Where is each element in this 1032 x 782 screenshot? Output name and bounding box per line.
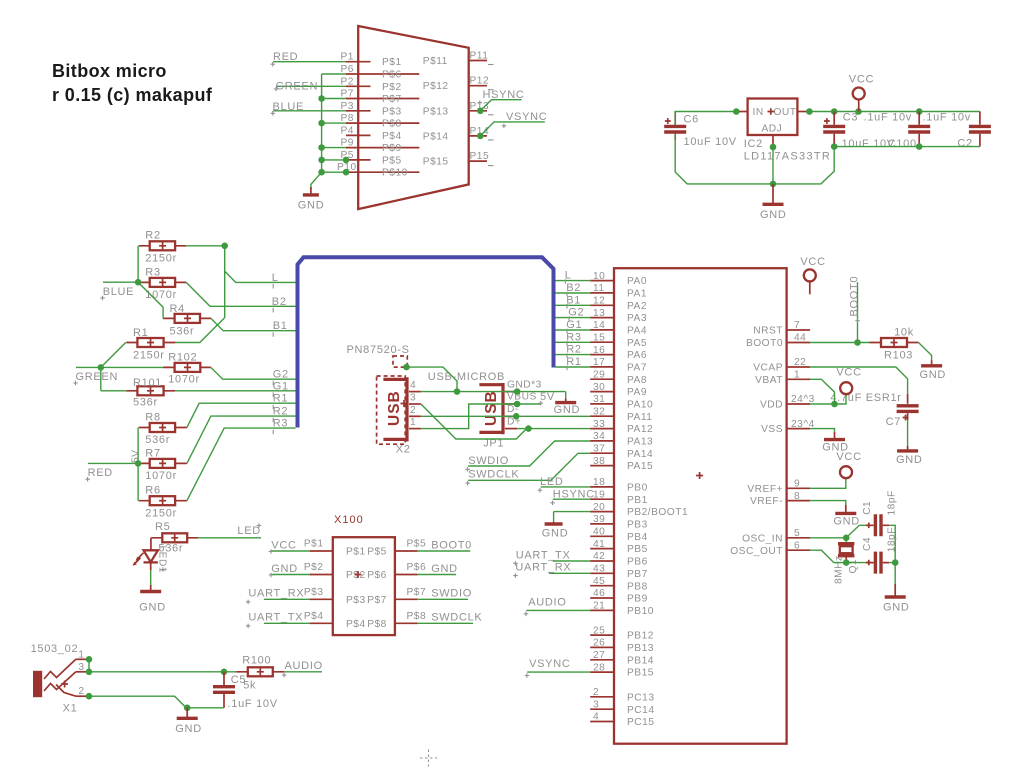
VGA pin P15 <box>423 151 494 168</box>
wire VSS to ground <box>810 429 834 432</box>
U1 pin 20 PB2/BOOT1 <box>590 502 688 518</box>
U1 pin 46 PB9 <box>590 588 648 604</box>
svg-text:P$6: P$6 <box>407 562 427 573</box>
svg-text:31: 31 <box>593 394 605 405</box>
ground GND below VGA <box>298 187 325 212</box>
svg-text:1070r: 1070r <box>145 470 177 482</box>
U1 pin 18 PB0 <box>590 477 648 493</box>
U1 pin 40 PB4 <box>590 527 648 543</box>
svg-text:20: 20 <box>593 502 605 513</box>
wire D- to PA11 <box>421 413 590 420</box>
svg-text:P$2: P$2 <box>382 82 402 93</box>
svg-text:GND*3: GND*3 <box>507 379 542 390</box>
X100 pin P$2 <box>304 562 333 575</box>
svg-text:AUDIO: AUDIO <box>528 597 566 609</box>
svg-text:PC15: PC15 <box>627 717 654 728</box>
svg-text:PC14: PC14 <box>627 705 654 716</box>
svg-text:PA11: PA11 <box>627 412 652 423</box>
svg-text:PB12: PB12 <box>627 631 654 642</box>
svg-text:PB1: PB1 <box>627 495 648 506</box>
svg-text:R3: R3 <box>145 267 160 279</box>
svg-text:C7: C7 <box>886 416 901 428</box>
VGA pin P9 <box>341 138 420 155</box>
svg-text:SWDIO: SWDIO <box>431 588 472 600</box>
svg-text:44: 44 <box>794 333 806 344</box>
svg-text:VCAP: VCAP <box>753 363 783 374</box>
node B2 label left <box>272 296 287 313</box>
svg-text:R1: R1 <box>566 356 581 368</box>
svg-text:Bitbox micro: Bitbox micro <box>52 61 167 81</box>
U1 pin 11 PA1 <box>590 283 647 299</box>
ground GND at C7 <box>896 446 923 466</box>
svg-text:21: 21 <box>593 601 605 612</box>
svg-text:BLUE: BLUE <box>273 101 305 113</box>
svg-text:4.7uF ESR1r: 4.7uF ESR1r <box>830 392 901 404</box>
svg-text:R6: R6 <box>145 485 160 497</box>
svg-text:R3: R3 <box>566 331 581 343</box>
svg-text:OSC_IN: OSC_IN <box>742 533 783 544</box>
node R1 label left <box>273 393 288 410</box>
svg-text:25: 25 <box>593 625 605 636</box>
svg-text:L: L <box>272 272 279 284</box>
wire R8 output to node R1 <box>187 403 296 427</box>
svg-text:G2: G2 <box>273 369 289 381</box>
svg-text:P$9: P$9 <box>382 143 402 154</box>
svg-text:536r: 536r <box>170 326 195 338</box>
svg-text:3: 3 <box>410 393 416 404</box>
node BOOT0 vertical label <box>848 276 860 343</box>
node B2 at PA1 <box>566 282 581 296</box>
svg-text:R4: R4 <box>170 303 185 315</box>
U1 pin 39 PB3 <box>590 514 648 530</box>
svg-text:15: 15 <box>593 332 605 343</box>
node BLUE into resistors <box>100 282 138 300</box>
svg-text:G1: G1 <box>566 319 582 331</box>
sheet origin cross <box>420 750 437 767</box>
IC2 pin OUT <box>797 111 809 113</box>
U1 pin 12 PA2 <box>590 296 647 312</box>
svg-text:18pF: 18pF <box>886 490 897 515</box>
svg-text:46: 46 <box>593 588 605 599</box>
svg-text:GND: GND <box>554 404 581 416</box>
svg-text:P$4: P$4 <box>382 131 402 142</box>
svg-text:OUT: OUT <box>774 107 797 118</box>
svg-text:GND: GND <box>833 515 860 527</box>
VGA pin P3 <box>341 101 402 118</box>
wire C7 to ground <box>907 420 909 446</box>
X2 pin 3 <box>409 393 421 405</box>
U1 right pin 5 OSC_IN <box>742 528 810 544</box>
capacitor C2 <box>957 112 991 150</box>
ground GND at R103 <box>920 360 947 381</box>
U1 pin 13 PA3 <box>590 308 647 324</box>
U1 pin 45 PB8 <box>590 576 648 592</box>
wire C4 to ground vertical <box>889 556 898 584</box>
U1 pin 19 PB1 <box>590 489 648 505</box>
svg-text:PA8: PA8 <box>627 375 647 386</box>
wire R2 output to node L <box>175 243 295 343</box>
svg-text:14: 14 <box>593 320 605 331</box>
wire C1 right to vertical <box>889 525 895 556</box>
node HSYNC from P13 <box>477 89 525 114</box>
node HSYNC at PB1 <box>550 489 595 506</box>
svg-text:17: 17 <box>593 357 605 368</box>
svg-text:33: 33 <box>593 419 605 430</box>
svg-text:42: 42 <box>593 551 605 562</box>
svg-text:PA15: PA15 <box>627 461 653 472</box>
node RED wire to P1 <box>271 51 347 67</box>
U1 pin 34 PA13 <box>590 431 653 447</box>
power VCC above U1 <box>800 256 825 294</box>
U1 right pin 24^3 VDD <box>760 394 815 410</box>
U1 pin 31 PA10 <box>590 394 653 410</box>
power VCC at VREF+ <box>836 451 861 478</box>
X2 pin 2 <box>409 405 421 417</box>
svg-text:.1uF 10v: .1uF 10v <box>923 112 971 124</box>
IC2 pin IN <box>736 111 747 113</box>
X1 pin 3 <box>76 662 89 673</box>
svg-text:VCC: VCC <box>849 74 874 86</box>
X100 pin P$4 <box>304 611 333 624</box>
svg-text:39: 39 <box>593 514 605 525</box>
VGA pin P1 <box>341 52 402 68</box>
IC2 pin ADJ <box>772 135 774 147</box>
svg-text:P$14: P$14 <box>423 131 449 142</box>
svg-text:GND: GND <box>920 369 947 381</box>
svg-text:PA5: PA5 <box>627 338 647 349</box>
capacitor C1 18pF <box>862 490 898 536</box>
node L label left <box>272 272 279 289</box>
svg-text:UART_RX: UART_RX <box>248 588 304 600</box>
U1 right pin 6 OSC_OUT <box>730 540 810 556</box>
svg-text:PB5: PB5 <box>627 544 648 555</box>
svg-text:P$2: P$2 <box>346 570 366 581</box>
U1 pin 28 PB15 <box>590 662 654 678</box>
ground GND below LED <box>139 592 166 614</box>
capacitor C3 <box>823 112 912 151</box>
audio jack X1 1503_02 <box>31 643 79 715</box>
resistor R6 2150r <box>139 485 187 520</box>
svg-text:PB6: PB6 <box>627 557 648 568</box>
svg-text:USB-MICROB: USB-MICROB <box>428 371 505 383</box>
svg-text:PA6: PA6 <box>627 350 647 361</box>
svg-text:18pF: 18pF <box>886 527 897 552</box>
wire R3 output to node B2 <box>186 282 295 306</box>
U1 pin 33 PA12 <box>590 419 653 435</box>
svg-text:B2: B2 <box>272 296 287 308</box>
U1 pin 32 PA11 <box>590 406 652 422</box>
svg-text:C1: C1 <box>862 501 873 515</box>
microcontroller U1 STM32 body <box>614 268 787 744</box>
svg-text:P$1: P$1 <box>382 57 402 68</box>
node G2 at PA3 <box>568 307 584 321</box>
svg-text:R5: R5 <box>155 521 170 533</box>
U1 pin 29 PA8 <box>590 369 647 385</box>
svg-text:AUDIO: AUDIO <box>285 660 323 672</box>
svg-text:R2: R2 <box>566 344 581 356</box>
X100 pin P$1 <box>304 539 333 552</box>
svg-text:32: 32 <box>593 406 605 417</box>
capacitor C4 18pF <box>862 527 898 574</box>
wire USB shield to GND net <box>403 364 457 392</box>
svg-text:GND: GND <box>298 200 325 212</box>
svg-text:VSYNC: VSYNC <box>506 111 547 123</box>
resistor R4 536r <box>163 303 211 337</box>
svg-text:19: 19 <box>593 489 605 500</box>
resistor R1 2150r <box>126 327 175 362</box>
node G1 label left <box>273 380 289 397</box>
node SWDIO at X100 P$7 <box>418 588 472 600</box>
svg-text:HSYNC: HSYNC <box>553 489 595 501</box>
node BLUE wire to P3 <box>271 101 347 116</box>
wire OSC_IN node <box>810 535 849 542</box>
svg-text:PA2: PA2 <box>627 301 647 312</box>
node LED label at R5 <box>198 523 261 538</box>
wire D+ to PA12 <box>517 425 590 432</box>
svg-text:PA7: PA7 <box>627 363 647 374</box>
node SWDCLK wire to PA14 <box>465 453 590 485</box>
U1 pin 17 PA7 <box>590 357 647 373</box>
resistor R3 1070r <box>139 267 187 301</box>
svg-text:2: 2 <box>78 686 84 697</box>
power VCC at VDD <box>836 366 861 394</box>
svg-text:PB13: PB13 <box>627 643 654 654</box>
X2 pin 4 <box>409 380 421 392</box>
U1 pin 41 PB5 <box>590 539 648 555</box>
svg-text:R2: R2 <box>273 406 288 418</box>
node R2 at PA6 <box>566 344 581 358</box>
svg-text:C2: C2 <box>957 138 972 150</box>
U1 pin 4 PC15 <box>590 712 654 728</box>
svg-text:G1: G1 <box>273 380 289 392</box>
svg-text:B2: B2 <box>566 282 581 294</box>
svg-text:RED: RED <box>88 467 113 479</box>
svg-text:BOOT0: BOOT0 <box>431 539 472 551</box>
wire R6 output to node R3 <box>187 428 296 501</box>
svg-text:r 0.15 (c) makapuf: r 0.15 (c) makapuf <box>52 85 213 105</box>
svg-text:1: 1 <box>78 649 84 660</box>
VGA pin P11 <box>423 51 494 68</box>
svg-text:GREEN: GREEN <box>276 80 319 92</box>
svg-text:3: 3 <box>78 662 84 673</box>
svg-text:1070r: 1070r <box>168 374 200 386</box>
svg-text:P$13: P$13 <box>423 106 449 117</box>
node R3 at PA5 <box>566 331 581 345</box>
svg-text:R103: R103 <box>884 349 913 361</box>
U1 pin 14 PA4 <box>590 320 647 336</box>
X100 pin P$3 <box>304 587 333 600</box>
node VSYNC at PB15 <box>525 658 591 678</box>
svg-text:18: 18 <box>593 477 605 488</box>
resistor R100 5k <box>236 655 284 692</box>
U1 pin 15 PA5 <box>590 332 647 348</box>
svg-text:Q1: Q1 <box>848 559 859 574</box>
svg-text:ADJ: ADJ <box>762 124 783 135</box>
node SWDIO wire to PA13 <box>465 441 590 472</box>
svg-text:P$1: P$1 <box>304 539 324 550</box>
svg-text:C100: C100 <box>888 138 917 150</box>
X100 pin P$7 <box>395 587 426 600</box>
svg-text:27: 27 <box>593 650 605 661</box>
svg-text:P$6: P$6 <box>367 570 387 581</box>
svg-text:X1: X1 <box>63 703 78 715</box>
svg-text:P$7: P$7 <box>407 587 427 598</box>
svg-text:P4: P4 <box>341 125 354 136</box>
svg-text:UART_TX: UART_TX <box>516 549 571 561</box>
VGA pin P10 <box>337 162 419 179</box>
svg-text:29: 29 <box>593 369 605 380</box>
svg-text:P$7: P$7 <box>367 595 387 606</box>
svg-text:8: 8 <box>794 491 800 502</box>
svg-text:R102: R102 <box>168 351 197 363</box>
svg-text:VDD: VDD <box>760 400 783 411</box>
svg-text:VSS: VSS <box>761 424 783 435</box>
VGA pin P13 <box>423 101 494 118</box>
svg-text:R8: R8 <box>145 412 160 424</box>
wire R103 to ground <box>919 343 932 361</box>
sheet title text <box>52 61 213 105</box>
svg-text:1: 1 <box>410 417 416 428</box>
wire VGA ground chain <box>311 74 346 189</box>
VGA pin P7 <box>341 89 420 106</box>
svg-text:30: 30 <box>593 382 605 393</box>
node BOOT0 at X100 <box>418 539 472 551</box>
svg-text:P$8: P$8 <box>367 619 387 630</box>
svg-text:PN87520-S: PN87520-S <box>347 344 410 356</box>
wire BLUE to R2 R3 R4 <box>135 246 163 319</box>
wire VREF- to ground <box>810 501 846 505</box>
svg-text:UART_TX: UART_TX <box>248 612 303 624</box>
U1 pin 30 PA9 <box>590 382 647 398</box>
VGA pin P14 <box>423 126 494 143</box>
U1 right pin 44 BOOT0 <box>746 333 810 349</box>
svg-text:GREEN: GREEN <box>76 371 119 383</box>
svg-text:B1: B1 <box>566 294 581 306</box>
svg-text:41: 41 <box>593 539 605 550</box>
node UART_TX at PB6 <box>513 549 590 565</box>
svg-text:PA10: PA10 <box>627 400 653 411</box>
svg-text:SWDCLK: SWDCLK <box>431 612 482 624</box>
X1 pin 1 <box>76 649 89 660</box>
U1 pin 43 PB7 <box>590 564 648 580</box>
node B1 at PA2 <box>566 294 581 308</box>
svg-text:PA3: PA3 <box>627 313 647 324</box>
node RED into resistors <box>85 450 141 482</box>
VGA pin P5 <box>341 150 402 167</box>
resistor R7 1070r <box>139 448 187 483</box>
crystal Q1 8MHz <box>834 538 860 584</box>
node G2 label left <box>273 369 289 386</box>
connector X? VGA DB15 body <box>358 26 469 209</box>
regulator IC2 LD117AS33TR <box>744 99 831 163</box>
svg-text:P$15: P$15 <box>423 157 449 168</box>
wire R7 output to node R2 <box>187 416 296 463</box>
svg-text:GND: GND <box>139 602 166 614</box>
svg-text:VCC: VCC <box>836 451 861 463</box>
svg-text:C4: C4 <box>862 537 873 551</box>
U1 pin 16 PA6 <box>590 345 647 361</box>
svg-text:VBAT: VBAT <box>755 375 783 386</box>
svg-text:PA12: PA12 <box>627 424 653 435</box>
svg-text:9: 9 <box>794 479 800 490</box>
svg-text:2150r: 2150r <box>145 507 177 519</box>
node R2 label left <box>273 406 288 423</box>
ground GND regulator <box>760 184 787 221</box>
svg-text:2150r: 2150r <box>145 252 177 264</box>
svg-text:GND: GND <box>760 209 787 221</box>
ground GND at VREF- <box>833 505 860 527</box>
resistor R101 536r <box>126 377 175 409</box>
ground GND at USB <box>554 399 581 417</box>
wire OSC_OUT to C4 <box>810 550 866 566</box>
svg-text:28: 28 <box>593 662 605 673</box>
X2 pin 1 <box>409 417 421 429</box>
svg-text:P$4: P$4 <box>304 611 324 622</box>
svg-text:PC13: PC13 <box>627 692 654 703</box>
svg-text:USB: USB <box>483 390 500 426</box>
svg-text:BOOT0: BOOT0 <box>848 276 860 317</box>
ground GND audio <box>175 708 202 735</box>
svg-text:P$1: P$1 <box>346 547 366 558</box>
svg-text:11: 11 <box>593 283 605 294</box>
JP1 pin D- <box>505 404 519 416</box>
ground GND at crystal <box>883 584 910 614</box>
power VCC (regulator output) <box>849 74 874 112</box>
svg-text:12: 12 <box>593 296 605 307</box>
U1 pin 27 PB14 <box>590 650 654 666</box>
svg-text:P$2: P$2 <box>304 562 324 573</box>
node G1 at PA4 <box>566 319 582 333</box>
wire X2 pin3 to D+ <box>421 404 529 439</box>
svg-text:7: 7 <box>794 320 800 331</box>
wire VBAT VDD to VCC <box>810 379 846 407</box>
wire R101 output to node G1 <box>175 390 295 392</box>
svg-text:P$4: P$4 <box>346 619 366 630</box>
wire OSC_IN to C1 <box>846 525 866 538</box>
svg-text:P$8: P$8 <box>382 119 402 130</box>
VGA pin P6 <box>341 64 420 81</box>
svg-text:PA14: PA14 <box>627 449 653 460</box>
svg-text:GND: GND <box>883 601 910 613</box>
wire VCAP to C7 <box>810 367 908 394</box>
svg-text:R1: R1 <box>273 393 288 405</box>
wire X1 tip/ring join <box>86 656 93 675</box>
svg-text:P$6: P$6 <box>382 70 402 81</box>
capacitor C100 <box>888 112 971 151</box>
wire R4 output to node B1 <box>211 318 296 330</box>
resistor R8 536r <box>139 412 187 447</box>
JP1 pin GND*3 <box>505 379 542 391</box>
svg-text:PB4: PB4 <box>627 532 648 543</box>
svg-text:3: 3 <box>593 699 599 710</box>
VGA pin P12 <box>423 76 494 93</box>
VGA pin P8 <box>341 113 420 130</box>
node LED at PB0 <box>538 476 591 493</box>
X100 pin P$6 <box>395 562 426 575</box>
svg-text:R3: R3 <box>273 418 288 430</box>
svg-text:BOOT0: BOOT0 <box>746 338 783 349</box>
svg-text:P$3: P$3 <box>346 595 366 606</box>
bus VGA signals <box>298 257 554 427</box>
svg-text:PB8: PB8 <box>627 581 648 592</box>
svg-text:GND: GND <box>542 528 569 540</box>
node R3 label left <box>273 418 288 435</box>
svg-text:10: 10 <box>593 271 605 282</box>
svg-text:VCC: VCC <box>271 539 296 551</box>
wire RED to R8 R7 R6 <box>135 428 142 501</box>
U1 pin 37 PA14 <box>590 443 653 459</box>
svg-text:R100: R100 <box>242 655 271 667</box>
